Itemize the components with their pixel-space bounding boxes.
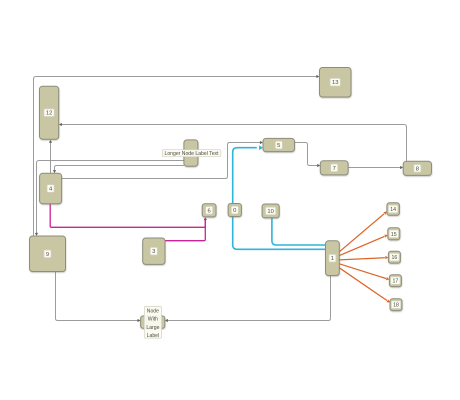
wire edge node1-to-node16 (orange) (339, 258, 385, 260)
wire edge node7-to-node8 (348, 167, 400, 169)
svg-text:Label: Label (147, 333, 159, 339)
label 1 (329, 254, 336, 262)
node 3 (143, 238, 165, 264)
svg-text:Large: Large (146, 325, 159, 331)
node 5 (263, 138, 295, 151)
label 9 (44, 250, 51, 258)
wire edge node4-to-node6 (magenta) (50, 204, 205, 228)
wire edge node4-to-node5 (62, 143, 260, 179)
svg-text:3: 3 (152, 249, 155, 255)
wire edge node1-to-node15 (orange) (339, 236, 384, 255)
label 7 (331, 164, 338, 172)
svg-text:1: 1 (331, 256, 334, 262)
svg-text:7: 7 (333, 166, 336, 172)
label 5 (275, 141, 282, 149)
wire edge node3-to-node6 (magenta) (165, 220, 205, 241)
label 17 (391, 277, 400, 285)
svg-text:8: 8 (416, 166, 419, 172)
node 18 (390, 299, 402, 311)
label node-with-large-label (144, 307, 161, 339)
wire edge node1-to-node17 (orange) (339, 264, 386, 279)
node 4 (40, 173, 62, 203)
label 8 (414, 165, 421, 173)
label 4 (47, 185, 54, 193)
node 6 (202, 204, 216, 217)
label 18 (391, 301, 400, 309)
svg-text:With: With (148, 317, 158, 323)
svg-text:0: 0 (233, 208, 236, 214)
svg-text:13: 13 (332, 80, 338, 86)
node 15 (388, 228, 400, 240)
wire edge longernode-to-node9 (37, 161, 184, 234)
label longer-node-label-text (162, 150, 221, 157)
node 7 (320, 161, 348, 175)
wire edge node9-to-node13 (34, 77, 317, 237)
wire edge node9-to-largelabelnode (56, 272, 138, 321)
wire edge node5-to-node7 (295, 143, 318, 166)
node 9 (30, 236, 66, 272)
label 16 (390, 253, 399, 261)
node 0 (228, 204, 241, 217)
label 10 (266, 207, 276, 215)
wire edge longernode-to-node4 (55, 166, 184, 171)
svg-text:Node: Node (147, 309, 159, 315)
node 1 (326, 241, 340, 276)
svg-text:6: 6 (207, 208, 210, 214)
wire edge node4-to-node12 (50, 143, 52, 174)
node 8 (403, 161, 431, 175)
label 15 (389, 230, 398, 238)
svg-text:10: 10 (267, 209, 273, 215)
wire edge node1-to-node14 (orange) (339, 214, 384, 252)
label 14 (388, 205, 397, 213)
svg-text:Longer Node Label Text: Longer Node Label Text (165, 151, 220, 157)
label 13 (330, 78, 340, 86)
wire edge node0-to-node1 (cyan) (233, 217, 326, 250)
label 0 (231, 206, 238, 214)
svg-text:9: 9 (46, 252, 49, 258)
large-label node (141, 316, 165, 328)
node 16 (388, 251, 400, 263)
label 3 (150, 247, 157, 255)
svg-text:18: 18 (393, 303, 399, 309)
wire edge node10-to-node1 (cyan) (272, 218, 325, 245)
node 17 (389, 275, 401, 287)
wire edge node0-to-node5 (cyan) (233, 148, 257, 204)
svg-text:15: 15 (391, 232, 397, 238)
svg-text:12: 12 (46, 111, 52, 117)
wire edge node8-to-node12 (62, 125, 407, 162)
svg-text:16: 16 (392, 255, 398, 261)
longer-label node (184, 140, 198, 166)
svg-text:5: 5 (277, 143, 280, 149)
label 12 (44, 109, 54, 117)
node 14 (387, 203, 400, 216)
node 10 (262, 204, 279, 218)
wire edge node1-to-largelabelnode (168, 276, 331, 321)
svg-text:14: 14 (390, 207, 396, 213)
svg-text:17: 17 (393, 279, 399, 285)
node 12 (40, 86, 59, 139)
label 6 (206, 207, 213, 215)
node 13 (320, 68, 352, 98)
wire edge node1-to-node18 (orange) (339, 268, 387, 301)
